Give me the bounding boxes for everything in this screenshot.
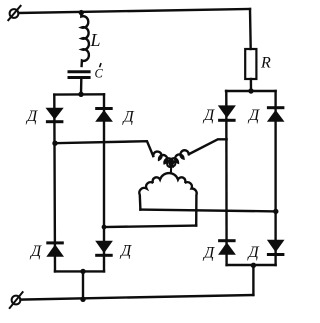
terminal bottom-left	[10, 292, 23, 308]
wire left bottom drop	[82, 271, 84, 299]
diode D5 right-bridge top-left	[218, 105, 236, 121]
svg-text:Д: Д	[29, 243, 42, 260]
wire A dome-left to right branch	[140, 210, 275, 212]
svg-text:C: C	[95, 67, 104, 81]
svg-text:Д: Д	[202, 107, 215, 124]
wire capacitor to left bus	[80, 80, 83, 95]
wire left bridge bottom bus	[55, 270, 104, 272]
wire bottom rail	[21, 295, 254, 300]
node dot right bus	[248, 88, 253, 93]
diode D1 left-bridge top-left	[46, 108, 64, 123]
svg-text:Д: Д	[247, 107, 260, 124]
diode D2 left-bridge top-right	[95, 107, 113, 122]
winding W1 left coil	[153, 152, 173, 167]
node dot top wire	[79, 10, 84, 15]
wire C dome-right to left branch	[104, 226, 196, 227]
svg-text:L: L	[90, 30, 101, 50]
node dot bottom rail	[80, 297, 85, 302]
diode D3 left-bridge bottom-left	[46, 241, 64, 256]
node dot A end	[273, 209, 278, 214]
diode D4 left-bridge bottom-right	[95, 241, 113, 257]
terminal top-left	[8, 6, 20, 20]
svg-text:Д: Д	[25, 108, 38, 125]
inductor L	[81, 13, 89, 66]
wire right bridge bottom bus	[227, 264, 276, 266]
wire right bottom drop	[252, 265, 254, 295]
winding center knot	[167, 161, 175, 173]
wire right bridge left branch	[225, 91, 228, 265]
wire top rail	[19, 9, 250, 13]
diode D8 right-bridge bottom-right	[267, 240, 285, 256]
wire node to left winding (D-line)	[55, 141, 153, 156]
svg-text:R: R	[260, 55, 271, 72]
node dot C end	[102, 225, 107, 230]
wire top-right drop to resistor	[249, 9, 252, 49]
node dot left bottom bus	[80, 269, 85, 274]
winding W3 dome	[139, 173, 196, 226]
wire left bridge left branch	[53, 95, 56, 272]
wire right bridge right branch	[274, 91, 276, 265]
diode D6 right-bridge top-right	[267, 106, 285, 122]
svg-text:Д: Д	[202, 245, 215, 262]
winding W2 right coil	[170, 150, 189, 166]
node dot D-line	[52, 141, 57, 146]
wire left bridge top bus	[54, 93, 104, 96]
resistor R	[245, 49, 256, 79]
wire resistor to right bus	[250, 79, 253, 91]
node dot left bus	[78, 92, 83, 97]
wire left bridge right branch	[103, 94, 105, 271]
svg-text:Д: Д	[119, 243, 132, 260]
wire right branch to right winding (E-line)	[189, 139, 227, 154]
capacitor C	[68, 72, 91, 78]
stray tick above C label	[100, 64, 101, 67]
diode D7 right-bridge bottom-left	[218, 239, 236, 255]
svg-text:Д: Д	[122, 109, 135, 126]
svg-text:Д: Д	[247, 244, 260, 261]
node dot right bottom bus	[251, 263, 256, 268]
wire right bridge top bus	[226, 90, 276, 92]
